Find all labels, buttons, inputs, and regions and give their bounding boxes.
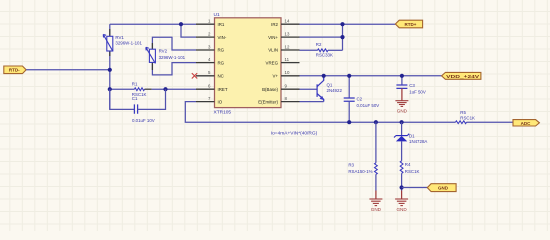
resistor RV2 body	[149, 49, 155, 62]
svg-text:RV2: RV2	[159, 48, 168, 53]
node Q1 collector on V+	[322, 74, 326, 78]
wire pin 13 VIN+ tie	[300, 36, 343, 38]
node R1 right	[163, 87, 167, 91]
resistor R4	[400, 161, 403, 174]
port GND	[427, 184, 456, 192]
wire R2 to vertical tie	[328, 49, 343, 51]
capacitor C1	[134, 104, 137, 113]
svg-text:NC: NC	[218, 74, 224, 79]
wire R1 to pin 6 IRET	[152, 88, 196, 90]
port VDD_+24V	[442, 72, 481, 79]
svg-text:13: 13	[285, 32, 290, 37]
svg-text:2N4922: 2N4922	[327, 88, 343, 93]
U1 pin 9 B(Base)	[281, 88, 300, 90]
wire pin 12 VLIN to R2	[300, 49, 318, 51]
wire R3 top	[375, 122, 377, 163]
svg-text:RTD-: RTD-	[9, 68, 20, 73]
svg-text:RSC1K: RSC1K	[460, 116, 475, 121]
svg-text:3296W-1-101: 3296W-1-101	[115, 40, 142, 45]
svg-text:RTD+: RTD+	[405, 22, 417, 27]
svg-text:XTR105: XTR105	[214, 110, 232, 116]
svg-text:RSC1K: RSC1K	[405, 169, 420, 174]
svg-text:VDD_+24V: VDD_+24V	[446, 74, 479, 79]
wire R5 to ADC	[467, 121, 514, 123]
U1 pin 13 VIN+	[281, 36, 300, 38]
svg-text:C3: C3	[409, 83, 415, 88]
svg-text:R4: R4	[405, 162, 411, 167]
U1 pin 12 VLIN	[281, 49, 300, 51]
U1 pin 8 E(Emitter)	[281, 101, 300, 103]
node R1 left	[108, 87, 112, 91]
resistor RV1 wiper arrow	[103, 34, 113, 51]
wire RV1 vertical branch	[109, 24, 111, 109]
wire C1 branch right	[138, 89, 166, 109]
wire C1 branch left	[110, 89, 135, 109]
node C2/IO junction R3 top	[374, 120, 378, 124]
wire pin 7 IO loop to output net	[185, 102, 455, 123]
wire C2 bottom	[348, 101, 350, 122]
resistor R1	[134, 88, 144, 91]
svg-text:VIN+: VIN+	[268, 35, 278, 40]
node C2 top	[347, 74, 351, 78]
svg-text:E(Emitter): E(Emitter)	[258, 99, 278, 104]
resistor RV1 body	[107, 36, 113, 51]
node D1 top junction	[400, 120, 404, 124]
svg-text:1uF 50V: 1uF 50V	[409, 89, 426, 94]
U1 pin 10 V+	[281, 75, 300, 77]
svg-text:RV1: RV1	[115, 35, 124, 40]
svg-text:C2: C2	[357, 96, 363, 101]
node RTD- / RV1 junction	[108, 68, 112, 72]
node C2 bottom	[347, 120, 351, 124]
svg-text:B(Base): B(Base)	[262, 87, 278, 92]
wire R4 bottom	[401, 173, 403, 190]
svg-text:V+: V+	[273, 74, 279, 79]
U1 pin 2 VIN-	[196, 36, 215, 38]
wire junction to pin 2 VIN-	[181, 24, 196, 37]
svg-text:VIN-: VIN-	[218, 35, 227, 40]
wire RV1 top to pin 1 IR1	[110, 23, 196, 25]
wire RV2 bottom to pin 4 RG	[152, 62, 196, 75]
ground under R4	[401, 191, 403, 200]
wire D1 top	[401, 122, 403, 136]
svg-text:VREG: VREG	[266, 60, 279, 65]
svg-text:C1: C1	[132, 96, 138, 101]
svg-text:3296W-1-101: 3296W-1-101	[159, 55, 186, 60]
port ADC	[513, 120, 539, 126]
svg-text:IRET: IRET	[218, 87, 228, 92]
op-amp U1 XTR105 body	[215, 18, 282, 108]
svg-text:Io=4mA+VIN*(40/RG): Io=4mA+VIN*(40/RG)	[271, 131, 318, 137]
svg-text:14: 14	[285, 19, 290, 24]
svg-text:R2: R2	[316, 42, 322, 47]
U1 pin 4 RG	[196, 62, 215, 64]
ground under R3	[375, 191, 377, 200]
diode D1 triangle	[396, 136, 407, 142]
port RTD-	[4, 66, 26, 74]
svg-text:12: 12	[285, 44, 290, 49]
svg-text:IR1: IR1	[218, 22, 225, 27]
U1 pin 1 IR1	[196, 23, 215, 25]
Q1 emitter arrow	[320, 96, 325, 100]
svg-text:IR2: IR2	[271, 22, 278, 27]
capacitor C2	[344, 98, 355, 101]
svg-text:GND: GND	[397, 109, 408, 114]
wire RTD- port to node	[26, 69, 110, 71]
U1 pin 5 NC	[196, 75, 215, 77]
resistor RV1 lead	[109, 29, 111, 56]
node GND port tie	[400, 185, 404, 189]
svg-text:GND: GND	[371, 207, 382, 212]
wire D1 to R4	[401, 141, 403, 161]
svg-text:GND: GND	[438, 186, 449, 191]
svg-text:RG: RG	[218, 48, 225, 53]
U1 pin 11 VREG	[281, 62, 300, 64]
svg-text:RSC33K: RSC33K	[316, 52, 333, 57]
svg-text:0.01uF 10V: 0.01uF 10V	[132, 118, 155, 123]
wire C3 top	[401, 76, 403, 85]
svg-text:R1: R1	[132, 82, 138, 87]
resistor R1 leads	[145, 88, 152, 90]
transistor Q1 2N4922	[317, 76, 324, 102]
U1 pin 7 IO	[196, 101, 215, 103]
wire to GND port	[402, 187, 428, 189]
wire pin 8 to Q1 emitter	[300, 101, 324, 103]
wire R3 bottom	[375, 174, 377, 190]
resistor R5	[456, 121, 467, 124]
svg-text:D1: D1	[409, 133, 415, 138]
node VIN+ tie	[340, 35, 344, 39]
svg-text:VLIN: VLIN	[268, 48, 278, 53]
resistor R2	[318, 49, 329, 52]
wire pin 14 IR2 to RTD+	[300, 23, 396, 25]
wire node to R1	[110, 88, 135, 90]
wire C2 top	[348, 76, 350, 98]
wire pin 9 to Q1 base	[300, 88, 318, 90]
wire vertical tie pins 12/13/14	[342, 24, 344, 50]
U1 pin 6 IRET	[196, 88, 215, 90]
svg-text:RSA150-1%: RSA150-1%	[348, 169, 372, 174]
svg-text:GND: GND	[396, 207, 407, 212]
node pin1/pin2 tie	[179, 22, 183, 26]
svg-text:R3: R3	[348, 162, 354, 167]
svg-text:10: 10	[285, 70, 290, 75]
port RTD+	[395, 20, 422, 28]
capacitor C3	[396, 85, 407, 88]
diode D1 1N4728A zener bar	[394, 134, 409, 138]
svg-text:ADC: ADC	[521, 121, 531, 126]
svg-text:IO: IO	[218, 99, 223, 104]
resistor RV2 wiper arrow	[146, 47, 156, 63]
node IR2 tie	[340, 22, 344, 26]
svg-text:11: 11	[285, 57, 290, 62]
no-ERC marker on pin 5	[192, 73, 197, 78]
svg-text:0.01uF 50V: 0.01uF 50V	[357, 103, 380, 108]
wire RV2 top to pin 3 RG	[152, 37, 196, 50]
ground under C3	[401, 88, 403, 100]
U1 pin 3 RG	[196, 49, 215, 51]
svg-text:R5: R5	[460, 110, 466, 115]
wire V+ rail pin 10 to VDD port	[300, 75, 442, 77]
svg-text:1N4728A: 1N4728A	[409, 139, 427, 144]
resistor RV2 lead	[151, 43, 153, 70]
node C3 top	[400, 74, 404, 78]
U1 pin 14 IR2	[281, 23, 300, 25]
resistor R3	[375, 163, 378, 175]
svg-text:U1: U1	[214, 12, 220, 18]
svg-text:RG: RG	[218, 60, 225, 65]
